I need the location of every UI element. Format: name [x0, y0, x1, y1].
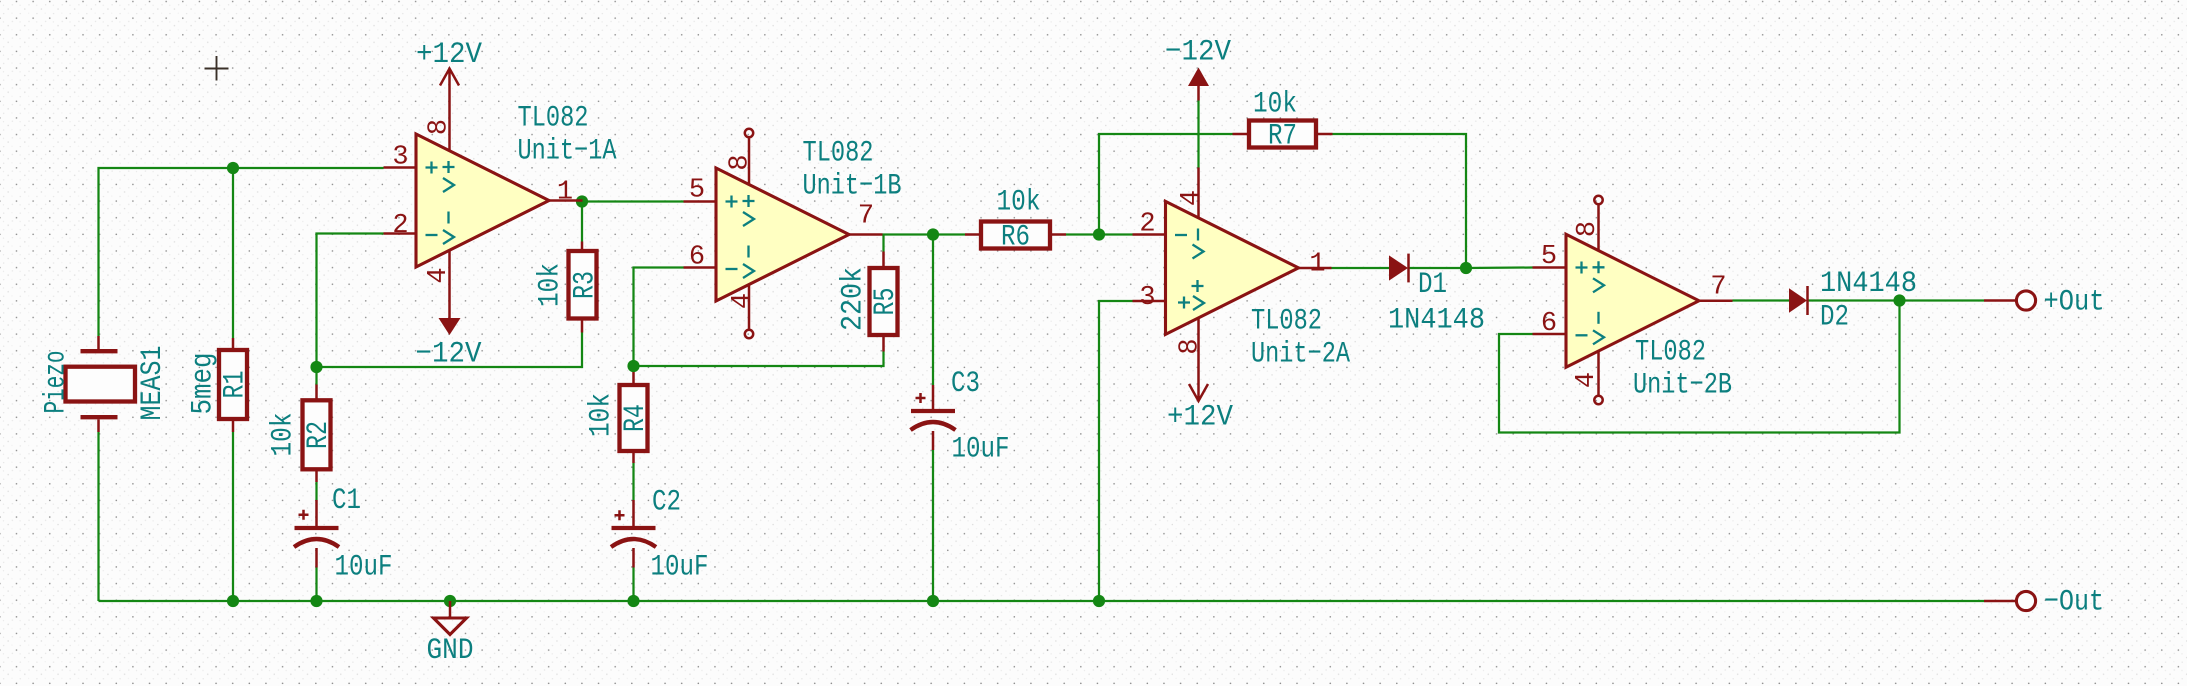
- junction rail pin3: [1093, 595, 1105, 607]
- svg-text:10uF: 10uF: [651, 551, 709, 585]
- wire C1 bottom to rail: [315, 568, 317, 602]
- piezo MEAS1: [66, 336, 136, 432]
- op-amp U2A: [1133, 201, 1332, 334]
- svg-text:2: 2: [392, 211, 408, 241]
- svg-text:R2: R2: [302, 421, 336, 449]
- svg-text:1: 1: [1309, 250, 1325, 280]
- junction U1B output node: [927, 228, 939, 240]
- wire R4 to C2: [632, 463, 634, 500]
- svg-text:6: 6: [1541, 309, 1557, 339]
- svg-text:MEAS1: MEAS1: [136, 346, 170, 421]
- svg-text:R5: R5: [869, 288, 903, 316]
- junction rail C3: [927, 595, 939, 607]
- junction U1A output node: [576, 195, 588, 207]
- svg-text:5: 5: [689, 176, 705, 206]
- diode D1: [1389, 254, 1409, 283]
- wire U2A pin3 to ground rail: [1099, 301, 1133, 601]
- wire C3 top: [932, 235, 934, 386]
- resistor R3: [569, 242, 597, 333]
- wire U1B pin6 to R4 node: [634, 268, 684, 367]
- wire R1 top: [232, 168, 234, 338]
- svg-text:10k: 10k: [585, 393, 619, 437]
- junction rail C2: [627, 595, 639, 607]
- op-amp U1B: [684, 129, 883, 338]
- junction rail R1: [227, 595, 239, 607]
- wire U2B output to D2: [1733, 299, 1790, 301]
- resistor R2: [303, 385, 331, 483]
- resistor R7: [1233, 121, 1333, 148]
- svg-text:+12V: +12V: [416, 38, 482, 72]
- wire U1A output to U1B pin5: [582, 200, 684, 202]
- wire pin2 node up to R7 left: [1099, 134, 1233, 235]
- svg-text:5meg: 5meg: [187, 353, 221, 415]
- terminal -Out: [1984, 591, 2036, 610]
- svg-text:3: 3: [1139, 283, 1155, 313]
- origin crosshair marker: [205, 56, 229, 81]
- power symbol -12V U1A: [439, 250, 461, 335]
- wire R7 right down to output node: [1333, 134, 1467, 268]
- resistor R1: [219, 338, 247, 432]
- svg-text:8: 8: [1176, 338, 1206, 354]
- capacitor C3: [911, 385, 956, 450]
- wire R4 node to R5 bottom: [634, 352, 884, 367]
- svg-text:TL082: TL082: [803, 137, 874, 171]
- svg-text:8: 8: [726, 154, 756, 170]
- terminal +Out: [1984, 291, 2036, 310]
- svg-text:Unit−1B: Unit−1B: [803, 170, 902, 204]
- svg-text:D2: D2: [1820, 301, 1849, 335]
- junction U1A input node: [227, 162, 239, 174]
- junction R4 node: [627, 360, 639, 372]
- svg-text:GND: GND: [427, 634, 474, 668]
- op-amp U1A: [384, 134, 583, 267]
- svg-text:TL082: TL082: [1635, 336, 1706, 370]
- svg-text:C3: C3: [951, 367, 980, 401]
- svg-text:Piezo: Piezo: [40, 351, 74, 414]
- svg-text:4: 4: [1177, 190, 1207, 206]
- wire node to U2B pin5: [1466, 266, 1533, 269]
- capacitor C2: [611, 500, 656, 568]
- svg-text:10k: 10k: [997, 186, 1041, 220]
- svg-text:TL082: TL082: [518, 102, 589, 136]
- svg-text:R3: R3: [569, 271, 603, 299]
- capacitor C1: [294, 500, 339, 568]
- svg-text:7: 7: [858, 202, 874, 232]
- wire D2 to +Out node: [1808, 299, 1984, 301]
- svg-text:4: 4: [728, 293, 758, 309]
- wire D1 to node: [1409, 267, 1466, 269]
- junction U2A output node: [1460, 262, 1472, 274]
- svg-text:10k: 10k: [1253, 88, 1297, 122]
- svg-text:C1: C1: [332, 484, 361, 518]
- wire R5 top to U1B output net: [882, 235, 884, 252]
- wire R1 bottom: [232, 432, 234, 601]
- wire U1B output to R6: [883, 233, 966, 235]
- svg-text:1N4148: 1N4148: [1820, 267, 1917, 301]
- svg-text:6: 6: [689, 243, 705, 273]
- diode D2: [1789, 286, 1808, 315]
- junction rail GND: [444, 595, 456, 607]
- svg-text:Unit−2B: Unit−2B: [1633, 369, 1732, 403]
- wire R2 top stub: [315, 367, 317, 385]
- svg-text:R1: R1: [219, 371, 253, 399]
- power symbol +12V U1A: [440, 69, 459, 151]
- svg-text:10k: 10k: [267, 413, 301, 457]
- wire U2B pin6 feedback loop: [1499, 301, 1900, 433]
- svg-text:Unit−1A: Unit−1A: [518, 135, 617, 169]
- wire R2 to C1: [315, 482, 317, 500]
- wire -12V power to U2A pin4: [1197, 101, 1199, 168]
- svg-text:4: 4: [1572, 372, 1602, 388]
- resistor R5: [870, 252, 898, 352]
- svg-text:TL082: TL082: [1251, 305, 1322, 339]
- wire U2A output to D1: [1332, 267, 1390, 269]
- op-amp U2B: [1533, 196, 1733, 404]
- resistor R4: [620, 372, 648, 463]
- svg-text:R4: R4: [619, 404, 653, 432]
- wire R2 node to R3 bottom: [317, 333, 583, 368]
- svg-text:Unit−2A: Unit−2A: [1251, 338, 1350, 372]
- svg-text:+12V: +12V: [1167, 401, 1233, 435]
- wire ground rail: [99, 600, 1985, 602]
- wire C2 bottom to rail: [632, 568, 634, 602]
- svg-text:8: 8: [1573, 221, 1603, 237]
- svg-text:D1: D1: [1418, 268, 1447, 302]
- svg-text:2: 2: [1139, 210, 1155, 240]
- svg-text:10uF: 10uF: [952, 433, 1010, 467]
- junction +Out node: [1893, 294, 1905, 306]
- svg-text:−12V: −12V: [1165, 36, 1231, 70]
- svg-text:−12V: −12V: [416, 338, 482, 372]
- svg-text:7: 7: [1710, 273, 1726, 303]
- svg-text:+Out: +Out: [2044, 286, 2105, 320]
- svg-text:220k: 220k: [837, 267, 871, 331]
- junction R2 node: [310, 361, 322, 373]
- svg-text:R7: R7: [1268, 120, 1297, 154]
- resistor R6: [965, 222, 1066, 249]
- svg-text:1: 1: [557, 178, 573, 208]
- svg-text:1N4148: 1N4148: [1388, 304, 1485, 338]
- wire R3 top to output node: [581, 202, 583, 242]
- svg-text:10uF: 10uF: [335, 551, 393, 585]
- junction U2A pin2 node: [1093, 228, 1105, 240]
- wire C3 bottom to rail: [932, 450, 934, 601]
- wire R4 top stub: [632, 366, 634, 372]
- power symbol -12V U2A: [1188, 68, 1209, 218]
- svg-text:C2: C2: [652, 486, 681, 520]
- svg-text:10k: 10k: [534, 263, 568, 307]
- svg-text:3: 3: [392, 143, 408, 173]
- power symbol +12V U2A: [1189, 318, 1208, 401]
- wire pin2 to R2 node: [317, 234, 384, 368]
- svg-text:−Out: −Out: [2044, 586, 2104, 620]
- svg-text:R6: R6: [1001, 221, 1030, 255]
- junction rail C1: [310, 595, 322, 607]
- svg-text:5: 5: [1541, 242, 1557, 272]
- wire piezo bottom to ground rail: [97, 432, 99, 601]
- wire piezo top to pin3 net: [99, 168, 384, 336]
- wire R6 to U2A pin2 node: [1066, 233, 1133, 235]
- ground symbol GND: [434, 601, 467, 635]
